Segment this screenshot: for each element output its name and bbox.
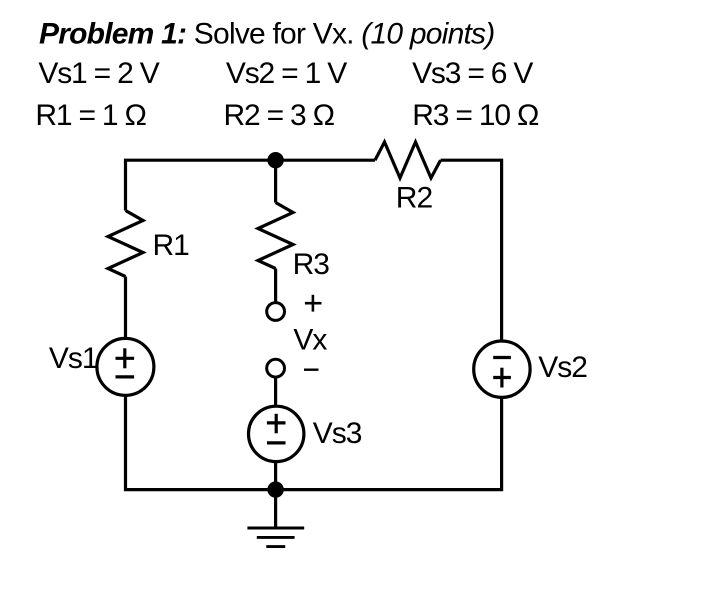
ground — [247, 528, 304, 547]
terminal node + (open circle) — [267, 303, 285, 321]
svg-text:Vx: Vx — [293, 324, 327, 357]
svg-text:Vs1 = 2 V: Vs1 = 2 V — [38, 57, 159, 90]
wire top-right and right rail upper (R2 to Vs2) — [441, 160, 502, 341]
wire Vs3 bottom to node B — [274, 462, 277, 490]
junction node A (top) — [267, 152, 283, 168]
voltage source Vs1 — [97, 338, 154, 395]
svg-text:R3: R3 — [293, 248, 330, 281]
svg-text:Vs2 = 1 V: Vs2 = 1 V — [226, 57, 347, 90]
svg-text:R3 = 10 Ω: R3 = 10 Ω — [412, 99, 539, 132]
wire R3 to terminal plus — [274, 269, 277, 303]
wire bottom-left (node B to bottom-left corner to Vs1) — [126, 395, 276, 489]
svg-text:R2: R2 — [396, 181, 433, 214]
resistor R3 — [258, 203, 293, 269]
svg-text:R1: R1 — [153, 229, 190, 262]
wire terminal minus to Vs3 — [274, 377, 277, 406]
svg-text:R2 = 3 Ω: R2 = 3 Ω — [224, 99, 335, 132]
wire top-left (left rail top corner to node A) — [126, 160, 276, 210]
svg-text:Problem 1: Solve for Vx. (10 p: Problem 1: Solve for Vx. (10 points) — [39, 17, 494, 50]
junction node B (bottom) — [267, 481, 283, 497]
plus sign of Vx — [305, 295, 322, 312]
resistor R2 — [375, 142, 441, 178]
wire right rail lower (Vs2 to bottom-right corner to node B) — [276, 397, 502, 489]
minus sign of Vx — [304, 369, 319, 371]
terminal node - (open circle) — [267, 359, 285, 377]
voltage source Vs3 — [249, 406, 304, 461]
resistor R1 — [108, 211, 143, 277]
svg-text:Vs1: Vs1 — [49, 342, 98, 375]
svg-text:Vs3 = 6 V: Vs3 = 6 V — [412, 57, 533, 90]
wire top-middle (node A to R2) — [276, 159, 375, 162]
wire middle rail upper (node A to R3) — [274, 160, 277, 202]
voltage source Vs2 — [474, 341, 530, 397]
wire ground stub — [274, 490, 277, 528]
wire Vs1 top to R1 bottom — [124, 277, 127, 339]
svg-text:Vs2: Vs2 — [538, 351, 587, 384]
svg-text:R1 = 1 Ω: R1 = 1 Ω — [35, 99, 146, 132]
svg-text:Vs3: Vs3 — [313, 417, 362, 450]
